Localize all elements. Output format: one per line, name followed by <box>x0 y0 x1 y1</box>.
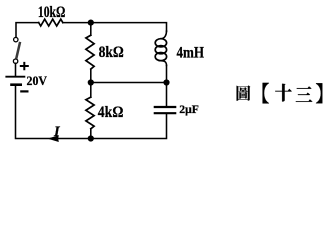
svg-text:4mH: 4mH <box>177 44 205 61</box>
svg-text:2μF: 2μF <box>179 104 199 116</box>
svg-text:4kΩ: 4kΩ <box>98 104 124 121</box>
svg-text:20V: 20V <box>27 74 48 88</box>
svg-text:I: I <box>53 124 61 140</box>
svg-text:10kΩ: 10kΩ <box>38 4 66 21</box>
svg-text:8kΩ: 8kΩ <box>99 44 124 61</box>
